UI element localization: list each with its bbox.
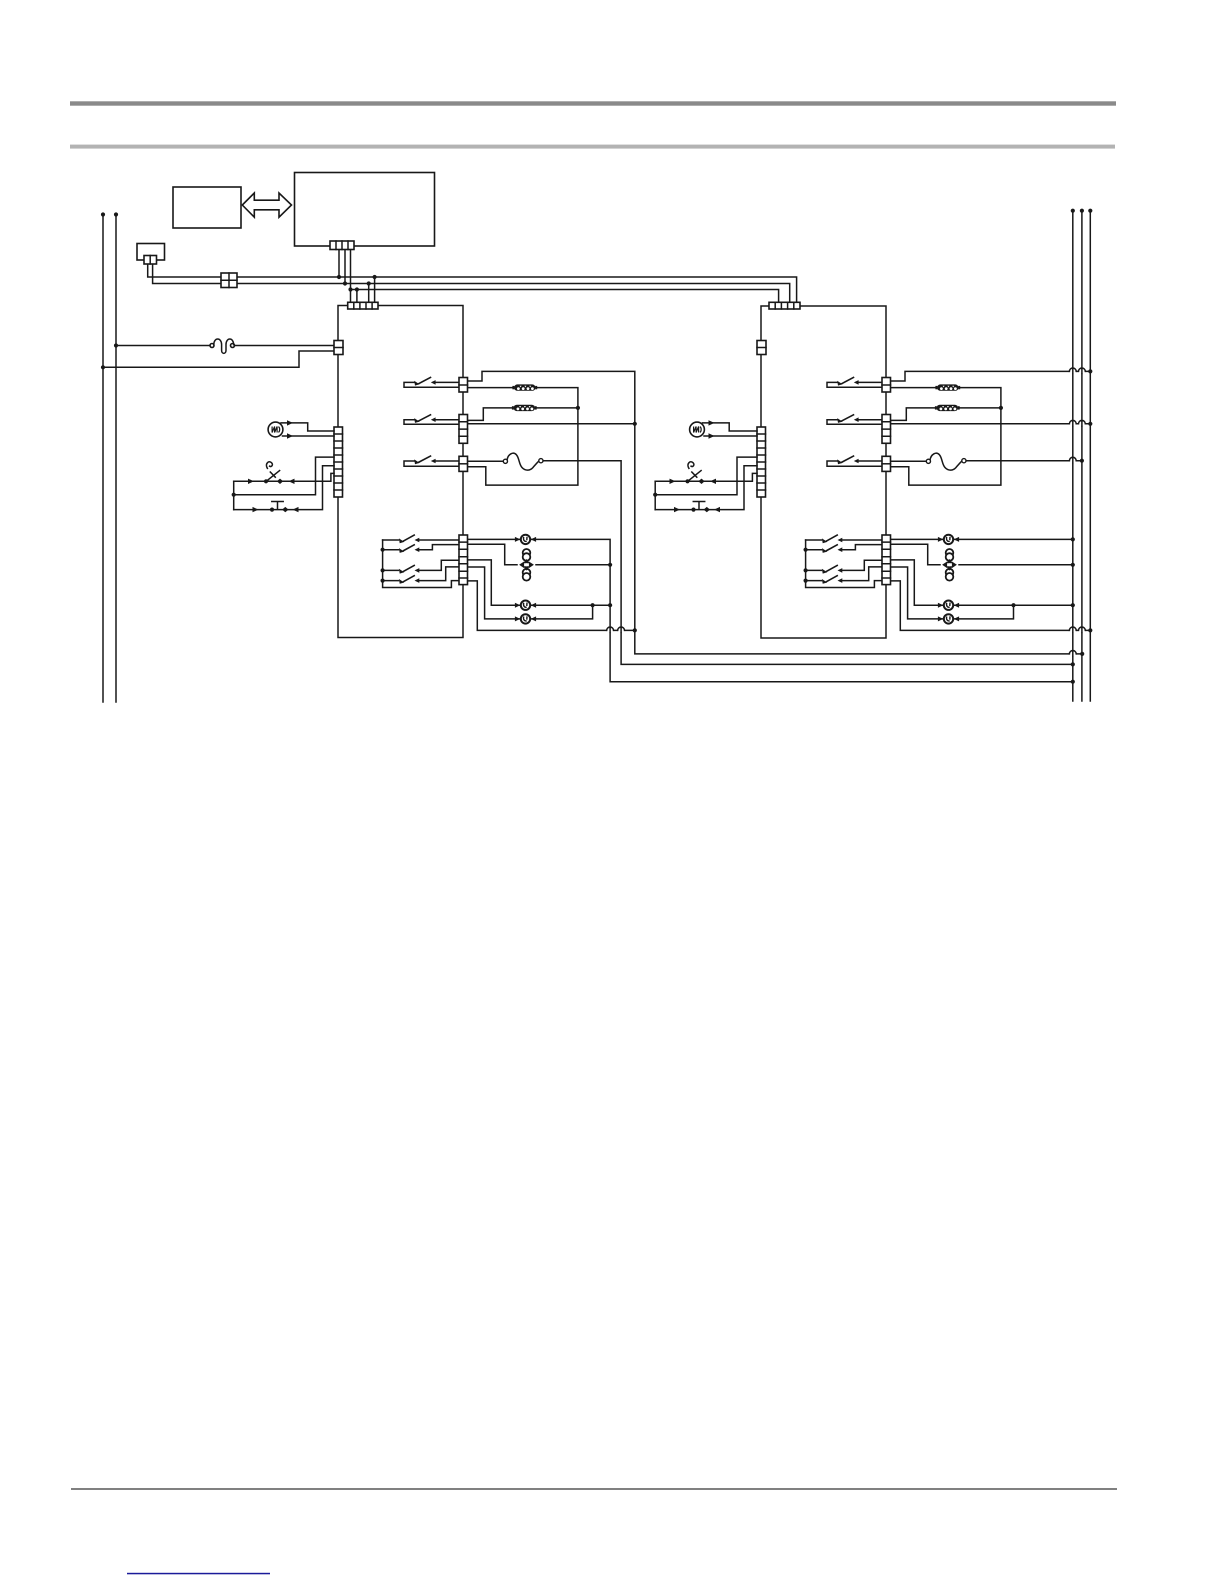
wire: module B ground run to rail R3 <box>891 581 1093 633</box>
wire: module B lamp1 row to rail R1 <box>891 537 1075 541</box>
lamp E1 (module A) <box>515 535 536 544</box>
wire: module A row2 bypass to node <box>468 423 635 425</box>
wire: module A row1 top feed loop to node down <box>468 371 1085 656</box>
wire: bus B3 <box>351 290 779 303</box>
wire: module A bank row C <box>383 560 459 570</box>
wire: relay pin to bus B2 <box>153 264 790 302</box>
connector: module B row3 <box>882 456 891 471</box>
coil M1 (module A) <box>512 384 537 390</box>
supply rail L1 (left vertical) <box>101 212 105 702</box>
wire: module A row3 switch fork <box>404 461 459 466</box>
connector: module A row2 <box>459 415 468 444</box>
connector: module B header <box>769 302 800 309</box>
wire: relay pin to bus B1 <box>148 264 797 302</box>
module A outline <box>338 306 463 638</box>
switch S3b (module B row3) <box>837 456 858 465</box>
data link double arrow <box>242 193 291 217</box>
supply rail R2 <box>1080 209 1084 701</box>
wire: module B row2 output to coil M5 <box>891 408 1001 421</box>
wire: module B row3 switch fork <box>827 461 882 466</box>
wire: module B blower cluster row to rail R1 <box>891 544 1075 567</box>
wire: fuse return to rail L1 <box>103 351 334 367</box>
footer link underline <box>127 1573 270 1575</box>
wire: module A lamp1 row to collector <box>468 539 1075 683</box>
connector: module B bank <box>882 535 891 585</box>
relay box K1 <box>137 244 165 261</box>
switch S5a (bank row B) <box>399 544 419 553</box>
connector: module B left strip <box>757 427 766 497</box>
supply rail R3 <box>1088 209 1092 701</box>
blower motor symbol M6 (module B) <box>942 549 957 581</box>
coil M2 (module A) <box>512 405 537 411</box>
wire: cluster B defrost row <box>655 466 757 513</box>
connector under relay K1 <box>144 256 157 265</box>
connector: module B row1 <box>882 378 891 393</box>
wire: module B row1 top feed to rail R3 <box>891 368 1093 381</box>
defrost switch S9b (cluster B) <box>693 502 704 509</box>
lamp E4 (module A) <box>515 614 536 623</box>
switch S4b (bank row A) <box>822 535 842 544</box>
module B outline <box>761 306 886 638</box>
connector: module A left strip <box>334 427 343 497</box>
lamp E7 (module B) <box>938 601 959 610</box>
blower motor symbol M3 (module A) <box>519 549 534 581</box>
wire: module A bank feed vertical <box>381 540 460 588</box>
thermal protector TH2 (module B) <box>926 453 966 470</box>
wire: cluster A common feed <box>232 457 334 510</box>
cluster B lamp wires <box>703 420 758 439</box>
wire: module A ground run <box>468 581 635 633</box>
wire: module B row1 output to coil M4 and loop back <box>891 388 1004 486</box>
supply rail R1 <box>1071 209 1075 701</box>
wire: cluster A thermostat row <box>234 473 334 484</box>
wire: module A lamp4 row <box>468 567 593 619</box>
connector: module A header <box>348 302 378 309</box>
inline connector X2 on buses <box>221 273 237 288</box>
header rule 2 <box>70 145 1115 149</box>
wire: module A header pin from B2 <box>367 281 371 302</box>
switch S6b (bank row C) <box>822 565 842 574</box>
thermostat switch S8a (cluster A) <box>267 462 280 481</box>
switch S2a (module A row2) <box>414 414 435 423</box>
connector X1 under control unit <box>330 241 354 250</box>
wire: module B bank row B <box>806 545 882 550</box>
wire: module A row2 switch fork <box>404 420 459 425</box>
wire: cluster B common feed <box>653 457 757 510</box>
wire: module A header pin from B1 <box>373 275 377 303</box>
wire: control unit pin 1 drop <box>337 250 341 280</box>
header rule 1 <box>70 101 1116 105</box>
supply rail L2 (left vertical) <box>114 212 118 702</box>
cluster A lamp wires <box>281 420 334 439</box>
thermal protector TH1 (module A) <box>503 453 543 470</box>
wire: module A row3 to thermal element and ground run <box>468 461 1075 667</box>
wire: module B row2 switch fork <box>827 420 882 425</box>
switch S1a (module A row1) <box>414 377 435 386</box>
wire: module A bank row B <box>383 545 459 550</box>
wire: module A row1 output to coil M1 and loop back <box>468 388 581 486</box>
switch S4a (bank row A) <box>399 535 419 544</box>
connector: module B row2 <box>882 415 891 444</box>
wire: fuse to module A connector <box>234 345 334 347</box>
wire: module A row1 switch fork <box>404 382 459 387</box>
wire: module A bank row D <box>383 567 459 581</box>
lamp E8 (module B) <box>938 614 959 623</box>
switch S5b (bank row B) <box>822 544 842 553</box>
switch S6a (bank row C) <box>399 565 419 574</box>
wire: module B row3 to thermal element and rail R2 <box>891 457 1085 462</box>
wire: cluster A defrost row <box>234 466 334 513</box>
footer rule <box>71 1488 1117 1490</box>
lamp E3 (module A) <box>515 601 536 610</box>
switch S7a (bank row D) <box>399 575 419 584</box>
wire: module A bank row A <box>383 539 459 541</box>
coil M5 (module B) <box>935 405 960 411</box>
wire: module B bank row A <box>806 539 882 541</box>
switch S1b (module B row1) <box>837 377 858 386</box>
switch S2b (module B row2) <box>837 414 858 423</box>
wire: module B lamp3 row to rail R1 <box>891 560 1075 607</box>
wire: module A blower cluster row <box>468 544 611 565</box>
control unit box U1 <box>295 173 435 247</box>
defrost switch S9a (cluster A) <box>272 502 283 509</box>
wire: module B bank row D <box>806 567 882 581</box>
wire: fuse feed from rail L2 <box>116 345 211 347</box>
wire: module B row1 switch fork <box>827 382 882 387</box>
wire: module B lamp4 row <box>891 567 1014 619</box>
wire: control unit pin 3 drop <box>348 250 352 303</box>
wire: control unit pin 2 drop <box>343 250 347 286</box>
switch S3a (module A row3) <box>414 456 435 465</box>
connector: module A bank <box>459 535 468 585</box>
connector: module B feed input <box>757 341 766 355</box>
switch S7b (bank row D) <box>822 575 842 584</box>
connector: module A row3 <box>459 456 468 471</box>
lamp E9 (cluster B) <box>690 422 705 437</box>
wire: module B bank row C <box>806 560 882 570</box>
connector: module A row1 <box>459 378 468 393</box>
small box (diagnostic unit) <box>173 187 241 228</box>
wire: module B bank feed vertical <box>804 540 883 588</box>
fuse F1 <box>210 339 235 353</box>
thermostat switch S8b (cluster B) <box>688 462 701 481</box>
wire: module A row2 output to coil M2 <box>468 408 578 421</box>
coil M4 (module B) <box>935 384 960 390</box>
connector: module A fuse input <box>334 341 343 355</box>
lamp E5 (cluster A) <box>268 422 283 437</box>
lamp E6 (module B) <box>938 535 959 544</box>
wire: module A lamp3 row <box>468 560 611 607</box>
wire: cluster B thermostat row <box>655 473 757 484</box>
wire: module B row2 bypass to rail R3 <box>891 420 1093 425</box>
wire: module A header pin from B3 <box>355 287 359 302</box>
